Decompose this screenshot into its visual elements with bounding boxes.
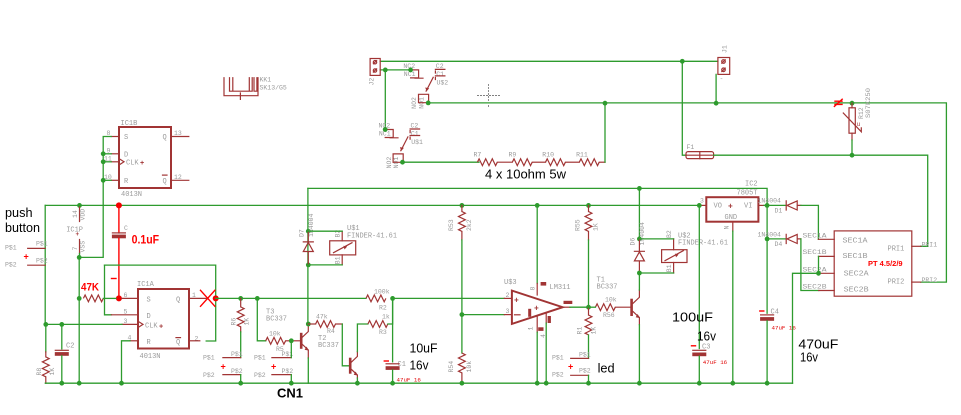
node D7 bottom junction [306, 263, 311, 268]
wire unreg down to D6 [638, 188, 640, 239]
wire T1 emitter to ground [638, 325, 640, 384]
svg-text:0.1uF: 0.1uF [132, 232, 160, 246]
svg-text:KK1: KK1 [260, 77, 272, 84]
svg-text:U$2: U$2 [437, 79, 449, 86]
svg-text:SEC1B: SEC1B [843, 253, 868, 261]
svg-text:1: 1 [192, 292, 196, 299]
svg-text:B1: B1 [666, 264, 673, 272]
comparator U$3 LM311 [504, 279, 572, 338]
varistor R12 S07K250 [834, 88, 872, 140]
svg-text:S: S [124, 134, 128, 142]
wire T2 collector to R3 [357, 324, 368, 352]
svg-text:BC337: BC337 [266, 316, 287, 324]
svg-text:Q: Q [176, 339, 180, 347]
heatsink KK1 SK13/G5 [224, 77, 287, 100]
svg-text:1: 1 [528, 327, 535, 331]
svg-text:47uF 16: 47uF 16 [703, 359, 728, 366]
wire red net lower [118, 238, 120, 298]
wire U$1 NO to resistor chain [403, 161, 480, 163]
wire T3 base branch [257, 298, 265, 340]
wire led pad to ground [588, 375, 590, 383]
svg-text:P$2: P$2 [36, 258, 48, 265]
power IC1P VDD pin14 [66, 207, 86, 254]
node 47K left junction [77, 296, 82, 301]
node ground dot [637, 381, 642, 386]
node divider junction [460, 312, 465, 317]
wire B2 to D6 top [639, 238, 673, 240]
transistor T3 BC337 [300, 326, 309, 358]
capacitor C 0.1uF [112, 225, 128, 238]
relay coil U$2 FINDER-41.61 [662, 230, 728, 273]
relay contact U$1 [379, 123, 424, 169]
svg-text:SEC1B: SEC1B [803, 249, 827, 256]
node R53 top tap [460, 203, 465, 208]
resistor R11 [576, 151, 599, 165]
node T3 branch tap [255, 296, 260, 301]
svg-text:PRI2: PRI2 [922, 277, 938, 284]
svg-text:VDD: VDD [80, 209, 87, 221]
wire pin4 to ground [545, 323, 547, 383]
wire output to R56 [589, 306, 596, 308]
svg-text:+: + [728, 202, 733, 211]
svg-text:J1: J1 [722, 45, 729, 53]
svg-text:P$1: P$1 [5, 245, 17, 252]
svg-text:SEC2B: SEC2B [803, 284, 827, 291]
resistor R53 2k2 [448, 205, 473, 240]
wire feedback loop Qbar to D [105, 265, 216, 341]
svg-text:PT 4.5/2/9: PT 4.5/2/9 [868, 259, 903, 268]
capacitor C3 [692, 343, 728, 366]
svg-text:1N4004: 1N4004 [639, 222, 646, 246]
wire pin1 to ground [536, 332, 538, 383]
node U$2 NC dot [408, 68, 413, 73]
node VO junction [697, 203, 702, 208]
svg-text:CLK: CLK [126, 159, 139, 167]
svg-text:C1: C1 [411, 131, 419, 138]
node ground dot [238, 381, 243, 386]
wire B1 to D6 bottom [639, 272, 673, 274]
connector CN1 pads A [203, 351, 243, 379]
svg-text:BC337: BC337 [597, 284, 618, 292]
svg-text:R12: R12 [858, 107, 865, 119]
node D7 top junction [306, 229, 311, 234]
fuse F1 [686, 144, 714, 159]
wire IC1B left rail to VSS [79, 137, 111, 258]
svg-text:R10: R10 [542, 151, 554, 158]
diode D4 1N4004 [758, 231, 801, 248]
svg-text:2k2: 2k2 [466, 219, 473, 231]
wire fuse to PRI1 [714, 155, 928, 246]
svg-text:FINDER-41.61: FINDER-41.61 [347, 232, 397, 240]
diode D7 1N4004 [299, 213, 315, 264]
resistor R8 1K [36, 352, 56, 383]
node VSS junction [77, 255, 82, 260]
node comparator V+ tap [535, 203, 540, 208]
node red junction Q [213, 295, 219, 301]
svg-text:2: 2 [506, 292, 510, 299]
node R12 top junction [850, 101, 855, 106]
node R6 tap [238, 296, 243, 301]
svg-text:4013N: 4013N [140, 353, 161, 361]
svg-text:GND: GND [725, 214, 738, 222]
svg-text:Q: Q [163, 134, 167, 142]
node IC1B pin10 [101, 178, 106, 183]
svg-text:CN1: CN1 [277, 386, 303, 401]
svg-text:10uF: 10uF [410, 340, 438, 355]
wire [532, 161, 545, 163]
svg-text:+: + [514, 297, 519, 306]
svg-text:VSS: VSS [80, 241, 87, 253]
resistor R4 47k [308, 314, 342, 335]
node ground dots left [59, 381, 64, 386]
svg-text:U$3: U$3 [504, 279, 517, 287]
wire R3 to divider node [388, 298, 393, 324]
wire down to fuse [682, 61, 686, 155]
svg-text:push: push [5, 205, 33, 220]
wire R1 to led pad [588, 335, 590, 358]
svg-text:P$1: P$1 [231, 351, 243, 358]
svg-text:P$2: P$2 [5, 262, 17, 269]
node U$1 NC dot [383, 127, 388, 132]
svg-text:1N4004: 1N4004 [758, 231, 782, 238]
wire R53 to divider [461, 240, 463, 353]
wire GND pin to ground [732, 231, 734, 383]
svg-text:16v: 16v [410, 358, 430, 373]
svg-text:100k: 100k [374, 289, 390, 296]
wire switched AC line U$2 NO to right [428, 103, 946, 282]
svg-text:R8: R8 [36, 368, 43, 376]
transistor T1 BC337 [630, 290, 640, 325]
svg-text:P$2: P$2 [203, 372, 215, 379]
regulator IC2 7805T [700, 181, 764, 232]
node U$2 NO dot [426, 101, 431, 106]
wire pushbutton vertical [44, 205, 46, 324]
svg-text:SEC2A: SEC2A [844, 270, 870, 278]
wire IC1B CLK pin [103, 161, 111, 163]
wire VSS rail down to 47K and ground [78, 257, 80, 383]
svg-text:P$1: P$1 [254, 355, 266, 362]
resistor R56 10k [595, 297, 616, 320]
node ground dot [355, 381, 360, 386]
svg-text:VO: VO [714, 203, 722, 211]
wire pad B P$1 up [290, 341, 292, 358]
svg-text:R1: R1 [577, 327, 584, 335]
wire C3 to ground [698, 356, 700, 383]
capacitor C2 [55, 343, 75, 356]
svg-text:B2: B2 [666, 230, 673, 238]
resistor R55 1K [575, 205, 600, 240]
transistor T2 BC337 [349, 352, 358, 378]
node R2 right junction [390, 296, 395, 301]
node red junction S pin [116, 295, 122, 301]
svg-text:button: button [5, 220, 40, 235]
node D6 bottom junction [637, 271, 642, 276]
svg-text:10k: 10k [269, 330, 281, 337]
svg-text:VI: VI [744, 203, 752, 211]
wire node to comparator plus input [393, 297, 505, 299]
node output junction [586, 305, 591, 310]
wire top AC line J2 pin1 to J1 [380, 60, 718, 62]
svg-text:P$1: P$1 [552, 355, 564, 362]
wire R11 up to AC line [599, 161, 605, 163]
resistor R1 1K [577, 307, 598, 335]
node D6 top junction [637, 237, 642, 242]
svg-text:2: 2 [195, 336, 199, 343]
svg-text:PRI2: PRI2 [888, 278, 905, 286]
svg-text:R4: R4 [327, 328, 335, 335]
svg-text:+: + [221, 362, 226, 372]
svg-text:8: 8 [529, 287, 536, 291]
svg-text:R2: R2 [379, 305, 387, 312]
capacitor C4 [760, 309, 797, 332]
svg-text:4013N: 4013N [121, 191, 142, 199]
wire R55 to output node [588, 240, 590, 307]
node R12 bottom junction [850, 153, 855, 158]
wire VO down to C3 [698, 205, 700, 348]
svg-text:+: + [76, 231, 80, 238]
connector led pads [552, 352, 591, 379]
wire R56 to T1 base [615, 306, 630, 308]
wire comparator output [570, 306, 589, 308]
node C2 tap [59, 322, 64, 327]
resistor R3 1k [368, 314, 390, 337]
svg-text:+: + [534, 304, 539, 313]
svg-text:LM311: LM311 [550, 284, 571, 292]
svg-text:PRI1: PRI1 [888, 245, 905, 253]
wire node down to C1 [392, 298, 394, 361]
wire R4 to T2 base [342, 324, 349, 366]
node T3 collector R4 junction [306, 322, 311, 327]
wire VI stub [764, 204, 767, 206]
svg-text:1k: 1k [382, 314, 390, 321]
wire red net upper [118, 205, 120, 233]
resistor 47K [83, 295, 103, 302]
wire C4 to ground [766, 321, 768, 383]
wire unreg drop to T3 collector [307, 188, 309, 324]
wire comparator input line [216, 297, 366, 299]
node unreg tap for D6 [637, 186, 642, 191]
resistor R9 [509, 151, 533, 165]
svg-text:led: led [598, 361, 615, 376]
node ground dot [289, 381, 294, 386]
node R55 top tap [586, 203, 591, 208]
capacitor C1 [384, 361, 421, 383]
wire +5V rail W5 [45, 204, 699, 206]
wire SEC1B to SEC2A junction [818, 256, 820, 273]
node J1 pin2 junction [714, 101, 719, 106]
svg-text:10k: 10k [605, 297, 617, 304]
node T3 base junction [289, 338, 294, 343]
wire D4 anode to SEC2B [801, 239, 819, 291]
svg-text:SK13/G5: SK13/G5 [260, 85, 287, 92]
connector J1 [718, 45, 730, 82]
wire [566, 161, 580, 163]
svg-text:R55: R55 [575, 219, 582, 231]
svg-text:100uF: 100uF [672, 310, 713, 325]
wire J2 pin2 down to switch U$1 NC [384, 70, 386, 130]
wire R12 bottom [851, 140, 853, 155]
wire J1 pin2 down [715, 74, 717, 103]
wire C2 to ground [61, 356, 63, 383]
resistor R7 [474, 151, 498, 165]
diode D6 1N4004 [630, 222, 647, 273]
op IC1B flip-flop 4013N [104, 120, 189, 199]
node VDD tap [77, 203, 82, 208]
svg-text:R9: R9 [509, 151, 517, 158]
no-connect X on Q [201, 290, 215, 306]
svg-text:Q: Q [176, 297, 180, 305]
wire unreg rail W4 [308, 188, 767, 205]
connector J2 [369, 59, 381, 86]
relay contact U$2 [403, 63, 448, 109]
svg-text:+: + [568, 362, 573, 372]
svg-text:P$2: P$2 [254, 372, 266, 379]
connector CN1 pads B [254, 351, 293, 379]
svg-text:P$1: P$1 [579, 352, 591, 359]
resistor R5 10k [266, 330, 286, 352]
svg-text:PRI1: PRI1 [922, 241, 938, 248]
svg-text:F1: F1 [687, 144, 695, 151]
svg-text:47k: 47k [316, 314, 328, 321]
wire T3 emitter to ground [307, 358, 309, 383]
svg-text:16v: 16v [800, 349, 819, 364]
svg-text:P$1: P$1 [36, 241, 48, 248]
svg-text:U$1: U$1 [411, 139, 423, 146]
node U$1 NO dot [400, 160, 405, 165]
wire pad B P$2 ground [290, 375, 292, 384]
svg-text:1K: 1K [244, 318, 251, 326]
diode D1 1N4004 [758, 197, 801, 214]
svg-text:C1: C1 [436, 71, 444, 78]
svg-text:+: + [24, 252, 29, 262]
svg-text:16v: 16v [697, 329, 717, 344]
svg-text:1K: 1K [593, 223, 600, 231]
op IC1A flip-flop 4013N [111, 281, 206, 361]
node IC1B pin9 [101, 151, 106, 156]
wire V+ to pin 8 [536, 205, 538, 283]
wire B1 to D7 bottom [308, 264, 342, 266]
svg-text:SEC2B: SEC2B [844, 287, 869, 295]
svg-text:R3: R3 [379, 329, 387, 336]
svg-text:N: N [724, 226, 731, 230]
wire loop left leg to D pin [105, 265, 112, 315]
svg-text:1K: 1K [591, 327, 598, 335]
svg-text:IC2: IC2 [745, 181, 758, 189]
svg-text:B1: B1 [335, 256, 342, 264]
wire IC1A R pin to ground [122, 341, 131, 383]
svg-text:BC337: BC337 [318, 342, 339, 350]
node ground dots right [697, 381, 702, 386]
relay coil U$1 FINDER-41.61 [330, 225, 397, 265]
svg-text:+: + [159, 323, 163, 331]
wire CLK line [45, 323, 122, 325]
svg-text:D: D [147, 313, 151, 321]
svg-text:R54: R54 [448, 361, 455, 373]
svg-text:C2: C2 [66, 343, 74, 351]
svg-text:+: + [271, 362, 276, 372]
wire D1 anode to SEC1A [801, 205, 819, 239]
cursor crosshair [478, 85, 500, 107]
wire C1 to ground [392, 370, 394, 383]
svg-text:14: 14 [72, 210, 79, 218]
svg-text:u: u [857, 121, 861, 128]
svg-text:4 x 10ohm 5w: 4 x 10ohm 5w [485, 167, 567, 182]
wire R5 to T3 base [286, 340, 300, 342]
node J2 pin2 junction [383, 68, 388, 73]
svg-text:SEC1A: SEC1A [803, 233, 827, 240]
resistor R54 10k [448, 353, 473, 383]
svg-text:NO2: NO2 [411, 97, 418, 109]
wire J2 pin2 to switch U$2 NC [380, 69, 410, 71]
wire IC1B R pin [103, 179, 111, 181]
svg-text:D1: D1 [775, 207, 783, 214]
node ground dot [390, 381, 395, 386]
svg-text:SEC1A: SEC1A [843, 237, 869, 245]
node center tap junction [816, 271, 821, 276]
svg-text:C: C [124, 225, 128, 232]
svg-text:S: S [147, 297, 151, 305]
red minus mark [112, 278, 117, 280]
node J1 feed junction [680, 59, 685, 64]
svg-text:+: + [140, 160, 144, 168]
svg-text:J2: J2 [369, 78, 376, 86]
svg-text:P$2: P$2 [552, 372, 564, 379]
wire to R8 [45, 324, 47, 352]
node IC1B pin11 [101, 159, 106, 164]
wire T2 emitter to ground [356, 378, 358, 383]
node red junction top of C [116, 202, 122, 208]
svg-text:P$1: P$1 [203, 355, 215, 362]
wire D6 bottom to T1 collector [638, 273, 640, 290]
svg-text:CLK: CLK [145, 323, 158, 331]
wire VSS down [79, 254, 81, 258]
node VI junction [765, 203, 770, 208]
svg-text:NC1: NC1 [404, 71, 416, 78]
svg-text:SEC2A: SEC2A [803, 266, 827, 273]
wire [497, 161, 512, 163]
resistor R10 [542, 151, 565, 165]
svg-text:7: 7 [72, 247, 79, 251]
svg-text:1K: 1K [49, 368, 56, 376]
svg-text:3: 3 [506, 308, 510, 315]
wire IC1B D pin [103, 153, 111, 155]
wire VI down through D4 to C4 [766, 205, 768, 313]
resistor R6 1K [231, 298, 251, 332]
svg-text:10k: 10k [466, 361, 473, 373]
node ground dot [586, 381, 591, 386]
svg-text:R56: R56 [603, 312, 615, 319]
svg-text:D4: D4 [775, 241, 783, 248]
node D4 cathode junction [765, 237, 770, 242]
node ground dot [460, 381, 465, 386]
svg-text:-: - [720, 75, 724, 82]
wire ground rail [45, 382, 792, 384]
svg-text:R53: R53 [448, 219, 455, 231]
svg-text:R6: R6 [231, 318, 238, 326]
svg-text:R7: R7 [474, 151, 482, 158]
svg-text:NO2: NO2 [386, 157, 393, 169]
wire center tap to ground rail [793, 273, 819, 383]
node ground dots [535, 381, 540, 386]
svg-text:FINDER-41.61: FINDER-41.61 [678, 240, 728, 248]
wire B2 to D7 top [308, 230, 342, 232]
resistor R2 100k [366, 289, 390, 312]
svg-text:47uF 16: 47uF 16 [397, 376, 422, 383]
node R8 tap [43, 322, 48, 327]
svg-text:47K: 47K [81, 281, 99, 293]
wire divider to minus input [462, 314, 504, 316]
svg-text:R11: R11 [576, 151, 588, 158]
